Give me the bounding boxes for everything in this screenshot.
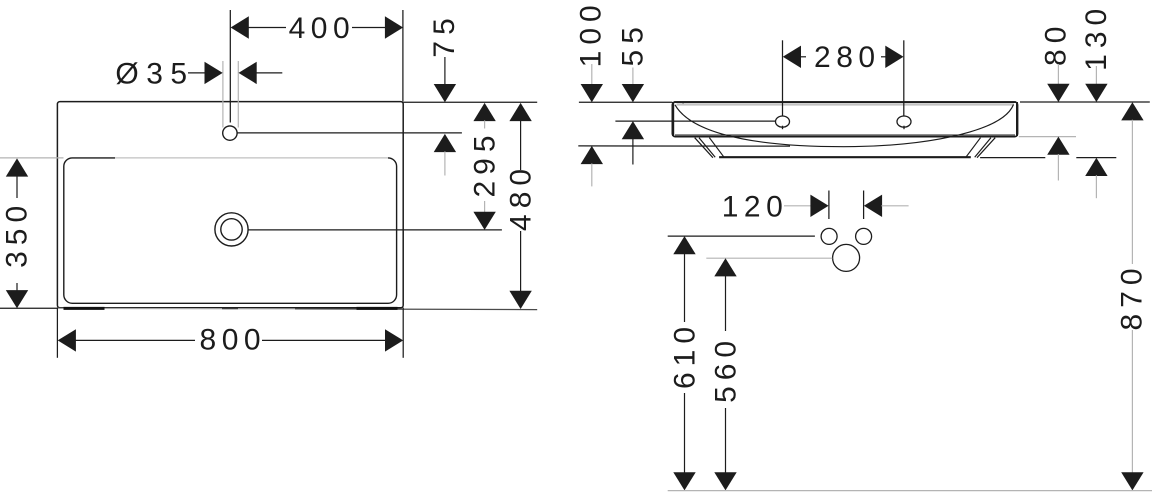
dimension 280 (783, 41, 904, 74)
foot mark right (357, 307, 398, 310)
svg-text:130: 130 (1080, 3, 1113, 71)
hole level reference line (55) (615, 120, 775, 122)
dimension Ø35 (115, 58, 282, 91)
drain outer circle (215, 213, 248, 246)
dimension 610 (668, 236, 701, 490)
dimension 75 (428, 12, 461, 175)
svg-text:80: 80 (1039, 21, 1072, 66)
dimension 400 (231, 12, 404, 45)
dimension 130 (1080, 3, 1113, 198)
slab right edge emphasis (1016, 102, 1018, 136)
apron left slant c (709, 138, 724, 158)
floor line (668, 490, 1152, 492)
bracket bottom reference line right (segment b) (1076, 157, 1116, 159)
560 reference line (gray) (706, 257, 832, 259)
faucet hole (top view) (223, 126, 237, 140)
100 depth reference line (578, 145, 790, 147)
dimension 120 extension line left (828, 191, 830, 220)
dimension 800 extension line right (402, 308, 404, 358)
svg-text:295: 295 (468, 129, 501, 197)
svg-text:870: 870 (1115, 262, 1148, 330)
dimension 280 extension line left (782, 40, 784, 116)
svg-text:55: 55 (617, 21, 650, 66)
basin bottom extension line (left black part) (0, 307, 57, 309)
svg-text:560: 560 (709, 335, 742, 403)
wall hole right (small circle) (856, 228, 872, 244)
svg-text:280: 280 (814, 41, 881, 74)
basin bottom extension line (dark segment under drain) (222, 308, 238, 310)
dimension 870 (1115, 102, 1148, 490)
slab bottom inner line (675, 134, 1015, 136)
deck hole right (ellipse) (897, 116, 911, 127)
svg-text:400: 400 (289, 12, 356, 45)
dimension 400 extension line at faucet centre (229, 10, 231, 123)
dimension Ø35 hole edge lines (gray) (222, 61, 224, 128)
apron left slant b (699, 138, 715, 158)
apron bottom (719, 156, 971, 158)
deck hole left (ellipse) (776, 116, 790, 127)
hole tick left (782, 126, 784, 130)
basin bottom extension line (gray middle) (57, 307, 295, 309)
foot mark left (64, 307, 105, 310)
slab body (672, 102, 1017, 137)
wall hole left (small circle) (821, 228, 837, 244)
apron right slant b (975, 138, 991, 158)
hole tick right (903, 126, 905, 130)
dimension 280 extension line right (903, 40, 905, 116)
drain inner circle (221, 219, 242, 240)
slab bottom reference line right (gray) (1019, 136, 1076, 138)
dimension 295 (468, 103, 501, 230)
svg-text:120: 120 (722, 191, 789, 224)
drain reference line (248, 229, 502, 231)
dimension 560 (709, 258, 742, 490)
apron right slant a (977, 138, 995, 158)
faucet hole reference line (237, 132, 462, 134)
slab top edge emphasis (674, 101, 1016, 103)
apron right slant c (966, 138, 981, 158)
dimension 55 (617, 21, 650, 164)
dimension 400 extension line right (402, 10, 404, 101)
svg-text:610: 610 (668, 321, 701, 389)
basin bottom extension line (right darker part) (295, 308, 537, 311)
bowl-top extension line (left, gray) (0, 157, 64, 159)
slab left edge emphasis (672, 102, 674, 136)
deck inner tick (682, 102, 684, 105)
dimension 350 (1, 158, 34, 308)
basin outer outline (57, 102, 403, 308)
top edge extension line left (579, 101, 672, 103)
610 reference line (668, 235, 815, 237)
dimension 80 (1039, 21, 1072, 181)
bowl silhouette curve (675, 105, 1014, 147)
dimension 480 (504, 103, 537, 309)
svg-text:Ø35: Ø35 (115, 58, 194, 91)
svg-text:100: 100 (575, 0, 608, 67)
svg-text:75: 75 (428, 12, 461, 57)
top edge extension line to the right (403, 101, 537, 103)
apron left slant a (695, 138, 713, 158)
svg-text:350: 350 (1, 200, 34, 268)
wall hole big (drain circle) (833, 244, 860, 271)
bowl top edge gray middle portion (115, 157, 388, 160)
basin inner bowl outline (64, 158, 397, 303)
top edge extension line right (1020, 101, 1150, 103)
dimension 100 (575, 0, 608, 186)
svg-text:480: 480 (504, 163, 537, 231)
dimension 120 (722, 191, 909, 224)
dimension 120 extension line right (863, 191, 865, 220)
deck back rim (gray band) (677, 103, 1015, 105)
dimension 800 extension line left (56, 308, 58, 358)
dimension 800 (58, 324, 404, 357)
svg-text:800: 800 (200, 324, 267, 357)
bracket bottom reference line right (segment a) (980, 157, 1045, 159)
